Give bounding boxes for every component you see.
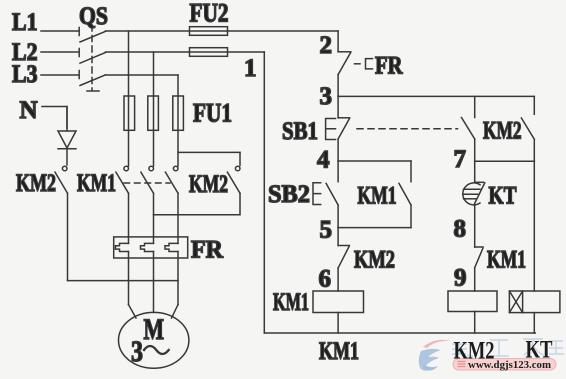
contactor KM1 pole 1 <box>116 166 129 193</box>
wire node 3 bus <box>338 95 534 97</box>
node 5 label <box>320 217 333 244</box>
label KT bottom <box>526 337 553 364</box>
wire L1 after QS <box>106 30 339 32</box>
svg-text:KT: KT <box>489 183 517 210</box>
svg-text:KM1: KM1 <box>77 170 116 197</box>
wire node 5 branch <box>338 227 411 229</box>
fuse FU2 element b <box>190 48 228 57</box>
node L1 <box>12 9 38 36</box>
label KM2 interlock <box>354 247 395 274</box>
svg-text:5: 5 <box>320 217 333 244</box>
svg-text:4: 4 <box>317 147 330 174</box>
wire phase U vertical (L1 to KM1 pole1) <box>128 31 130 166</box>
svg-text:L1: L1 <box>12 9 38 36</box>
svg-text:3: 3 <box>131 335 143 368</box>
fuse FU1 element b <box>148 96 159 130</box>
relay FR trip symbol <box>355 59 373 69</box>
svg-text:SB2: SB2 <box>268 181 310 208</box>
label KM1 coil <box>273 289 309 316</box>
node L3 <box>12 61 38 88</box>
svg-text:KM1: KM1 <box>273 289 309 316</box>
coil KT with X box <box>509 291 560 333</box>
label FR control <box>375 53 403 80</box>
node 4 label <box>317 147 330 174</box>
label KT contact <box>489 183 517 210</box>
node 6 label <box>319 266 332 293</box>
label KM1 main <box>77 170 116 197</box>
svg-text:QS: QS <box>79 3 108 30</box>
contactor KM1 linkage dashes <box>124 182 170 184</box>
label KM2 bottom <box>454 338 495 365</box>
svg-text:L3: L3 <box>12 61 38 88</box>
switch QS pole 2 <box>79 49 105 64</box>
svg-text:1: 1 <box>244 55 257 82</box>
node 8 label <box>454 216 467 243</box>
wire phase U lower <box>128 193 130 243</box>
wire coil KM1 to bottom <box>337 313 339 334</box>
svg-text:N: N <box>20 97 38 124</box>
wire motor lead U <box>129 252 137 319</box>
wire motor lead W <box>172 252 179 319</box>
motor 3~ label <box>131 335 169 368</box>
wire phase W lower <box>177 193 179 243</box>
contact KM2 NO self-hold right <box>521 96 534 161</box>
fuse FU2 label <box>190 0 229 28</box>
fuse FU1 element a <box>124 96 135 130</box>
wire bottom bus <box>264 332 535 334</box>
wire KT branch vertical <box>533 161 535 291</box>
svg-text:FR: FR <box>191 237 224 264</box>
svg-text:KT: KT <box>526 337 553 364</box>
contact KM1 NC interlock right <box>475 247 483 291</box>
label KM2 right <box>189 171 228 198</box>
svg-text:8: 8 <box>454 216 467 243</box>
wire L3 lead-in <box>41 74 78 76</box>
wire motor lead V <box>153 252 155 313</box>
wire L3 after QS <box>106 74 179 76</box>
linkage SB1-KM2 dashed <box>357 128 458 130</box>
wire phase W vertical (L3 to KM1 pole3) <box>177 75 179 166</box>
wire 2 corner into control <box>337 31 339 52</box>
relay FR heater element 2 <box>141 243 154 251</box>
switch QS pole 1 <box>79 28 105 43</box>
contactor KM1 pole 2 <box>141 166 154 193</box>
node 7 label <box>454 146 467 173</box>
contact KM2 NC interlock <box>338 228 349 291</box>
watermark url bar <box>453 359 556 371</box>
svg-text:7: 7 <box>454 146 467 173</box>
wire N <box>42 107 67 129</box>
svg-text:9: 9 <box>454 265 467 292</box>
svg-text:FU1: FU1 <box>193 99 232 128</box>
svg-text:KM2: KM2 <box>483 118 522 145</box>
svg-text:KM2: KM2 <box>189 171 228 198</box>
node L2 <box>12 39 38 66</box>
svg-text:KM1: KM1 <box>319 338 359 365</box>
svg-text:2: 2 <box>320 32 333 59</box>
svg-text:KM2: KM2 <box>16 170 56 197</box>
svg-text:FR: FR <box>375 53 403 80</box>
wire L1 lead-in <box>41 30 78 32</box>
fuse FU1 label <box>193 99 232 128</box>
watermark logo swirl <box>419 340 451 371</box>
relay FR heater box <box>114 237 188 258</box>
label KM1 interlock right <box>487 247 526 274</box>
wire 1 rail (right side of FU2-b down left rail of control) <box>263 52 265 333</box>
node 9 label <box>454 265 467 292</box>
svg-text:KM1: KM1 <box>358 183 397 210</box>
button SB1 actuator bracket <box>326 119 336 140</box>
wire brake DC link (KM2-left to phase W) <box>68 280 179 282</box>
motor M circle <box>119 312 189 368</box>
diode VD <box>58 107 76 166</box>
button SB1 NC <box>338 96 350 161</box>
contact KM2 left (brake) <box>55 166 68 280</box>
contactor KM1 pole 3 <box>165 166 178 193</box>
fuse FU2 element a <box>190 27 228 36</box>
contact KM1 self-hold NO <box>399 161 411 228</box>
motor M label <box>144 313 165 346</box>
svg-text:FU2: FU2 <box>190 0 229 28</box>
wire L2 lead-in <box>41 51 78 53</box>
label KM2 left <box>16 170 56 197</box>
label SB2 <box>268 181 310 208</box>
watermark hanzi strokes <box>452 339 564 356</box>
contact KM2 NO (brake, linked to SB1) <box>462 96 475 161</box>
label SB1 <box>282 118 318 145</box>
wire phase V lower <box>153 193 155 243</box>
wire phase V vertical (L2 to KM1 pole2) <box>153 52 155 166</box>
wire coil KM2 to bottom <box>474 312 476 334</box>
button SB2 actuator bracket <box>313 183 321 205</box>
svg-text:KM2: KM2 <box>454 338 495 365</box>
label KM1 self-hold <box>358 183 397 210</box>
coil KM2 <box>448 291 497 312</box>
switch QS pole 3 <box>79 71 105 86</box>
label KM1 bottom <box>319 338 359 365</box>
wire node 7 bus <box>475 160 535 162</box>
node N <box>20 97 38 124</box>
svg-text:SB1: SB1 <box>282 118 318 145</box>
coil KM1 <box>313 291 364 313</box>
contact FR NC (control) <box>338 52 351 97</box>
relay FR heater element 3 <box>165 243 178 251</box>
label KM2 brake <box>483 118 522 145</box>
svg-text:3: 3 <box>320 83 333 110</box>
svg-text:KM1: KM1 <box>487 247 526 274</box>
node 2 label <box>320 32 333 59</box>
fuse FU1 element c <box>173 96 184 130</box>
svg-text:6: 6 <box>319 266 332 293</box>
svg-text:M: M <box>144 313 165 346</box>
button SB2 NO (start) <box>326 161 338 228</box>
switch QS label <box>79 3 108 30</box>
switch QS linkage dashed bar <box>87 25 99 91</box>
svg-text:KM2: KM2 <box>354 247 395 274</box>
wire node 4 branch <box>338 160 411 162</box>
relay FR heater element 1 <box>116 243 129 251</box>
label FR main <box>191 237 224 264</box>
wire L2 after QS <box>106 51 265 53</box>
node 3 label <box>320 83 333 110</box>
contact KT on-delay NO <box>463 161 485 247</box>
contact KM2 right (brake bypass) <box>154 152 241 214</box>
node 1 label <box>244 55 257 82</box>
